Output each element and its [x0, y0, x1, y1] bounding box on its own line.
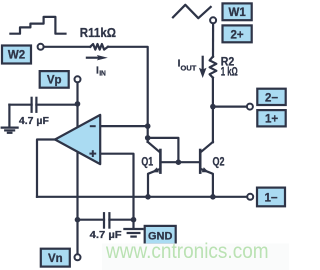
junction dot C2 right / ground	[131, 217, 137, 223]
terminal box 2+	[223, 25, 252, 42]
svg-text:4.7 µF: 4.7 µF	[19, 115, 50, 127]
svg-text:2+: 2+	[231, 29, 244, 41]
node circle W2	[38, 44, 44, 50]
capacitor C2 4.7uF bottom: wires	[78, 219, 105, 221]
staircase waveform icon	[10, 17, 65, 34]
svg-text:Q2: Q2	[213, 157, 225, 169]
transistor Q2 collector	[201, 142, 213, 152]
current arrow I_OUT	[202, 57, 204, 70]
triangle waveform icon	[173, 5, 211, 18]
transistor Q1 emitter	[148, 169, 160, 197]
wire Vp supply vertical through op-amp to Vn	[76, 82, 78, 254]
node circle 1-	[247, 194, 253, 200]
svg-text:Vn: Vn	[48, 253, 63, 265]
svg-text:1+: 1+	[265, 114, 278, 126]
wire node B to terminal 2-/1+	[213, 105, 247, 107]
junction dot diode connection	[145, 135, 151, 141]
current arrowhead I_OUT	[199, 68, 207, 78]
svg-text:R11kΩ: R11kΩ	[80, 26, 116, 40]
transistor Q2 emitter arrow	[202, 167, 209, 172]
node circle Vn	[75, 254, 81, 260]
svg-text:OUT: OUT	[181, 63, 197, 72]
junction dot C2 left	[75, 217, 81, 223]
terminal box Vp	[40, 71, 69, 88]
svg-text:Vp: Vp	[47, 75, 62, 87]
current arrow I_IN	[87, 57, 99, 59]
wire op-amp output feedback: apex left and down	[37, 140, 55, 197]
resistor R2	[210, 57, 217, 78]
wire op-amp noninverting input to ground	[100, 154, 133, 228]
terminal box 1+	[257, 110, 285, 126]
capacitor C1 4.7uF top: wires	[36, 104, 77, 106]
junction dot Vp/C1	[75, 101, 81, 107]
wire node A to base node (diode connection)	[148, 138, 179, 162]
junction dot inverting input	[145, 123, 151, 129]
node circle 2-/1+	[247, 104, 253, 110]
transistor Q1 emitter arrow	[152, 167, 159, 172]
svg-text:IN: IN	[99, 68, 106, 77]
ground symbol left	[2, 126, 18, 128]
op-amp U1	[55, 115, 100, 164]
junction dot Q1 emitter rail	[145, 194, 151, 200]
wire W2 node to R1	[44, 46, 91, 48]
transistor Q1 base bar	[159, 150, 162, 173]
wire R2 to node B	[212, 78, 214, 107]
node circle W1	[210, 17, 216, 23]
current arrowhead I_IN	[97, 55, 108, 60]
terminal box W2	[2, 46, 31, 64]
terminal box Vn	[41, 249, 70, 267]
wire W1 node to R2	[212, 23, 214, 56]
capacitor C2 plates	[103, 213, 105, 227]
transistor Q2 emitter	[201, 169, 213, 197]
junction dot Q2 emitter rail	[210, 194, 216, 200]
svg-text:Q1: Q1	[141, 157, 153, 169]
transistor Q2 base bar	[199, 150, 202, 173]
junction dot base node	[176, 159, 182, 165]
wire output rail to terminal 1-	[37, 196, 248, 198]
resistor R1	[90, 44, 108, 50]
svg-text:1−: 1−	[264, 193, 277, 205]
capacitor C1 plates	[31, 98, 33, 112]
terminal box 1-	[257, 188, 285, 207]
wire node A to op-amp inverting input	[100, 125, 148, 127]
svg-text:2−: 2−	[265, 92, 278, 104]
terminal box W1	[223, 3, 252, 20]
svg-text:1 kΩ: 1 kΩ	[221, 67, 238, 79]
svg-text:W2: W2	[8, 50, 25, 62]
transistor Q1 collector	[148, 142, 160, 152]
watermark backdrop	[102, 244, 289, 270]
ground symbol bottom	[124, 228, 142, 230]
terminal box GND	[145, 226, 176, 245]
op-amp minus sign	[90, 125, 96, 127]
wire R1 to node A vertical	[108, 47, 148, 142]
svg-text:W1: W1	[228, 7, 246, 19]
wire base Q1 to base Q2	[161, 161, 200, 163]
op-amp plus sign	[89, 150, 96, 157]
junction dot node B	[210, 104, 216, 110]
node circle Vp	[75, 76, 81, 82]
svg-text:www.cntronics.com: www.cntronics.com	[105, 239, 268, 263]
wire node B to Q2 collector	[212, 107, 214, 143]
terminal box 2-	[257, 89, 285, 105]
